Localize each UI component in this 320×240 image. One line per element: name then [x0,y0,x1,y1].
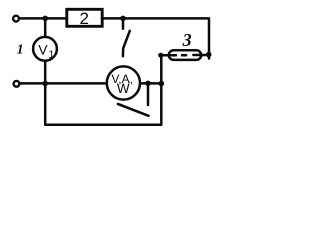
terminal top-left [13,16,19,22]
fuse 3 center dash [182,54,186,57]
svg-text:3: 3 [182,30,192,50]
wire voltmeter V1 to junction C [44,62,47,84]
svg-text:2: 2 [80,9,89,28]
voltmeter V1 [33,37,57,61]
node junction B [120,16,126,22]
node junction E [159,81,165,87]
fuse 3 body [169,50,201,60]
switch S1 stub [122,18,125,28]
node junction G [206,52,212,58]
box component 2 [67,9,102,26]
svg-text:1: 1 [48,49,54,61]
switch S2 fixed contact stub [147,83,150,105]
wire bottom loop [45,55,161,125]
switch S1 blade [123,31,130,57]
node junction C [42,81,48,87]
switch S2 blade [118,104,149,116]
node junction F [145,81,151,87]
wire fuse left lead [161,54,176,57]
wire fuse right lead to junction G [193,54,207,57]
wire box 2 to top-right corner and down right side [102,18,209,58]
wire terminal to meter [20,82,106,85]
node junction A [42,16,48,22]
wire terminal to box 2 [20,17,66,20]
wire junction A down to voltmeter V1 [44,18,47,36]
svg-text:V: V [38,41,48,57]
svg-text:1: 1 [17,43,24,58]
svg-text:W: W [117,81,130,96]
meter V,A,W [107,66,140,99]
wire meter right to vertical [141,82,162,85]
node junction D fuse corner [158,53,163,58]
terminal bottom-left [14,81,20,87]
